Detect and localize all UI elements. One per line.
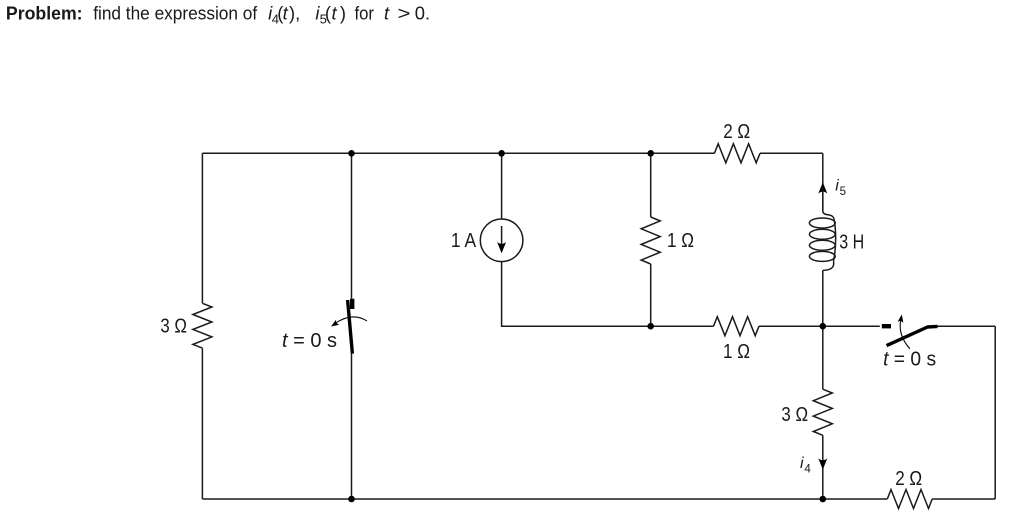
wire: resistor R3 to top-right corner — [760, 152, 823, 154]
resistor R1 3ohm (left vertical) — [193, 303, 212, 348]
current source I1 arrowhead (down) — [497, 242, 506, 253]
svg-text:Problem:: Problem: — [6, 3, 83, 24]
svg-text:t: t — [283, 3, 289, 24]
wire: top rail from top-left corner to node D — [202, 152, 650, 154]
svg-text:3 H: 3 H — [839, 231, 864, 253]
wire: inductor branch, top-right corner down to coil L1 — [822, 153, 824, 211]
node D junction dot (top rail / 1ohm branch) — [647, 150, 654, 157]
inductor L1 coil loop 4 — [809, 251, 835, 261]
switch SW1 arc arrowhead — [331, 320, 339, 327]
switch SW1 blade — [348, 300, 353, 354]
svg-text:2 Ω: 2 Ω — [723, 121, 750, 143]
current arrow i5 shaft — [822, 189, 824, 211]
problem statement text — [6, 3, 430, 27]
resistor R2 1ohm (middle vertical) — [641, 217, 660, 264]
wire: switch SW1 branch, node B down to switch contact — [351, 153, 353, 298]
wire: right edge, switch SW2 down to bottom-right corner — [994, 326, 996, 499]
inductor L1 coil loop 3 — [809, 240, 835, 250]
wire: current source branch, node C down to source I1 — [501, 153, 503, 219]
switch SW2 arc arrow curve — [900, 319, 910, 349]
svg-text:2 Ω: 2 Ω — [895, 468, 922, 490]
wire: 3ohm right branch, node F down to resistor R5 — [822, 326, 824, 389]
wire: middle rail node G to resistor R4 (1ohm horizontal) — [651, 325, 714, 327]
wire: resistor R4 to middle node F — [759, 325, 823, 327]
current source I1 circle — [480, 219, 523, 262]
switch SW2 blade — [887, 326, 938, 345]
inductor L1 coil loop 2 — [809, 229, 835, 239]
svg-text:>: > — [398, 3, 411, 24]
svg-text:5: 5 — [840, 186, 846, 198]
wire: resistor R5 down to bottom rail node L — [822, 435, 824, 499]
svg-text:1 A: 1 A — [451, 230, 477, 252]
svg-text:0.: 0. — [415, 3, 430, 24]
svg-text:4: 4 — [804, 464, 811, 476]
node F junction dot (middle rail / inductor / 3ohm) — [820, 323, 827, 330]
wire: source I1 bottom down and right to middle rail — [502, 262, 651, 327]
svg-text:),: ), — [289, 3, 300, 24]
resistor R5 3ohm (right vertical) — [813, 389, 832, 435]
inductor L1 coil exit curve — [823, 261, 834, 270]
wire: resistor R6 to bottom-right corner — [932, 498, 995, 500]
switch SW2 arc arrowhead — [898, 315, 904, 323]
svg-text:find the expression of: find the expression of — [93, 3, 258, 24]
switch SW2 fixed contact stub — [882, 324, 891, 328]
wire: node D to resistor R3 (2ohm top) — [651, 152, 715, 154]
node L junction dot (bottom rail / 3ohm branch) — [820, 496, 827, 503]
wire: coil L1 bottom down to middle node F — [822, 270, 824, 326]
resistor R3 2ohm (top horizontal) — [714, 144, 760, 163]
wire: switch SW2 pivot to right edge corner — [938, 325, 996, 327]
resistor R4 1ohm (middle horizontal) — [714, 317, 760, 336]
wire: bottom rail from bottom-left corner to resistor R6 (2ohm bottom) — [202, 498, 887, 500]
switch SW1 fixed contact stub — [350, 299, 354, 309]
svg-text:i: i — [800, 455, 804, 472]
wire: resistor R2 down to middle rail node G — [650, 264, 652, 326]
wire: resistor R1 down to bottom-left corner — [201, 348, 203, 499]
svg-text:3 Ω: 3 Ω — [781, 404, 808, 426]
wire: 1ohm vertical branch, node D down to resistor R2 — [650, 153, 652, 217]
svg-text:3 Ω: 3 Ω — [160, 315, 187, 337]
inductor L1 coil right-side connector — [834, 218, 836, 261]
wire: node F right to switch SW2 contact — [823, 325, 880, 327]
switch SW1 arc arrow curve — [335, 317, 368, 324]
current arrow i4 arrowhead (down) — [818, 458, 827, 469]
svg-text:t = 0 s: t = 0 s — [282, 330, 337, 352]
svg-text:t = 0 s: t = 0 s — [883, 349, 936, 371]
svg-text:for: for — [355, 3, 375, 24]
svg-text:t: t — [384, 3, 390, 24]
node B junction dot (top rail / switch SW1) — [348, 150, 355, 157]
node C junction dot (top rail / current source) — [498, 150, 505, 157]
resistor R6 2ohm (bottom horizontal) — [887, 490, 932, 509]
inductor L1 coil loop 1 — [809, 218, 835, 228]
node G junction dot (middle rail / 1ohm branch) — [647, 323, 654, 330]
svg-text:1 Ω: 1 Ω — [723, 341, 750, 363]
wire: switch SW1 blade bottom down to bottom rail node K — [351, 353, 353, 499]
node K junction dot (bottom rail / switch SW1) — [348, 496, 355, 503]
svg-text:t: t — [332, 3, 338, 24]
svg-text:1 Ω: 1 Ω — [667, 230, 694, 252]
wire: left branch, top-left corner down to resistor R1 (3ohm left) — [201, 153, 203, 303]
current source I1 arrow shaft — [501, 226, 503, 246]
svg-text:): ) — [340, 3, 346, 24]
current arrow i5 arrowhead (up) — [818, 182, 827, 193]
inductor L1 coil entry curve — [823, 212, 834, 219]
